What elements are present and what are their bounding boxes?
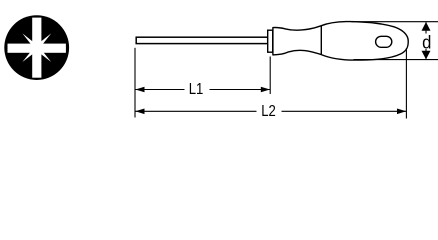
L1 left arrowhead — [135, 87, 144, 93]
handle hanging hole — [376, 36, 392, 47]
L1 dimension line — [136, 89, 271, 91]
d dimension top tick line — [352, 21, 438, 23]
L2 right arrowhead — [397, 109, 406, 115]
d dimension up arrowhead — [422, 22, 431, 31]
d dimension bottom tick line — [354, 59, 438, 61]
right extension line (handle end) — [405, 48, 407, 119]
pozidriv icon: white cross vertical bar — [32, 18, 41, 78]
d dimension vertical line — [425, 22, 427, 59]
L2 left arrowhead — [135, 109, 144, 115]
label L1 — [185, 82, 210, 96]
svg-text:L1: L1 — [189, 81, 204, 98]
screwdriver shaft — [136, 37, 268, 43]
svg-text:L2: L2 — [261, 103, 276, 120]
handle outline — [273, 22, 408, 61]
pozidriv icon: diagonal ray bottom-left — [22, 46, 38, 62]
pozidriv bit icon: black circle — [4, 15, 69, 80]
L1 right arrowhead — [261, 87, 270, 93]
ferrule — [268, 30, 273, 52]
label d — [422, 34, 433, 50]
L1 right extension line (ferrule) — [269, 57, 271, 95]
d dimension down arrowhead — [422, 51, 431, 60]
label L2 — [257, 104, 282, 118]
left extension line (blade tip) — [134, 48, 136, 118]
pozidriv icon: diagonal ray bottom-right — [35, 46, 51, 62]
pozidriv icon: white cross horizontal bar — [8, 44, 66, 53]
pozidriv icon: diagonal ray top-right — [35, 33, 51, 49]
pozidriv icon: diagonal ray top-left — [22, 33, 38, 49]
handle grip/body junction line — [320, 26, 322, 55]
L2 dimension line — [136, 110, 407, 112]
svg-text:d: d — [422, 31, 431, 52]
